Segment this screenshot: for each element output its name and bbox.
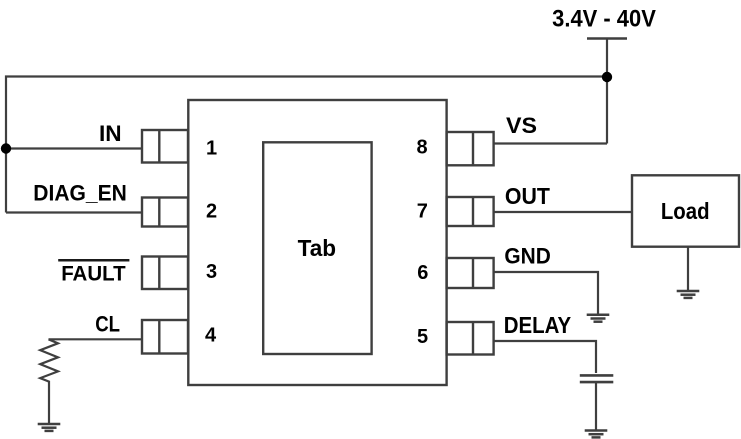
svg-text:CL: CL	[95, 312, 120, 337]
svg-text:Tab: Tab	[298, 235, 336, 261]
svg-text:Load: Load	[661, 198, 710, 224]
svg-text:7: 7	[417, 201, 428, 223]
svg-text:DIAG_EN: DIAG_EN	[33, 181, 127, 206]
svg-text:8: 8	[417, 137, 428, 159]
svg-text:3.4V - 40V: 3.4V - 40V	[552, 5, 656, 32]
svg-text:OUT: OUT	[505, 183, 550, 209]
svg-text:2: 2	[206, 200, 217, 222]
svg-text:3: 3	[206, 261, 217, 283]
svg-text:IN: IN	[99, 121, 122, 146]
svg-text:6: 6	[417, 262, 428, 284]
svg-text:4: 4	[205, 325, 217, 347]
svg-text:1: 1	[206, 138, 217, 160]
svg-text:VS: VS	[506, 113, 537, 138]
svg-text:GND: GND	[504, 244, 550, 269]
svg-text:FAULT: FAULT	[61, 262, 125, 286]
svg-text:5: 5	[417, 326, 428, 348]
svg-text:DELAY: DELAY	[504, 312, 571, 338]
